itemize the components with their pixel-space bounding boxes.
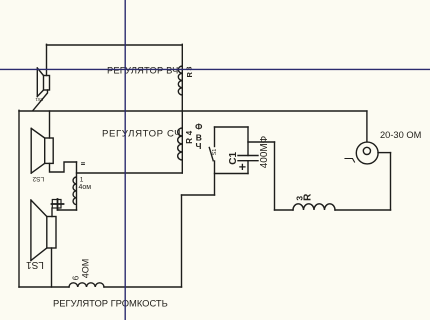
wire bottom vertical up [181,195,183,287]
wire bottom rail left [19,286,69,288]
earpiece outer circle [356,142,378,164]
speaker LS1 tweeter [37,68,49,97]
svg-text:4: 4 [185,130,194,135]
wire right edge up [390,153,392,210]
wire R4 bottom lead [181,160,183,173]
tiny equals mark [82,163,85,165]
wire right branch vertical [274,142,276,210]
wire box bottom edge [215,173,249,175]
svg-text:C1: C1 [228,151,239,164]
wire long middle [77,172,183,174]
wire LS2 top lead [49,111,51,138]
wire bottom rail right [104,286,182,288]
svg-text:Ч: Ч [196,141,202,151]
svg-text:LS1: LS1 [35,97,44,102]
wire bottom right [335,209,391,211]
svg-text:1: 1 [80,177,84,184]
wire LS2 bottom staircase [50,162,77,172]
wire cap tap [248,141,275,143]
plus terminal box [52,200,61,209]
svg-text:S1: S1 [212,149,218,156]
speaker LS3 [31,200,56,261]
wire jog horizontal [182,194,215,196]
svg-text:LS1: LS1 [26,259,44,270]
svg-text:РЕГУЛЯТОР СЧ: РЕГУЛЯТОР СЧ [102,129,181,140]
svg-text:R: R [302,193,313,201]
inductor L2 volume [69,283,104,287]
wire C1 top lead [247,127,249,156]
wire R3 to R4 [181,95,183,128]
wire left vertical [18,110,20,287]
svg-text:6: 6 [72,275,81,280]
earpiece tick mark [345,159,355,163]
wire R3 top lead [181,44,183,66]
inductor R4 [178,128,183,160]
crosshair horizontal [0,68,430,70]
C1 polarity plus [240,164,245,169]
wire LS3 top lead [51,208,53,217]
svg-text:РЕГУЛЯТОР ВЧ: РЕГУЛЯТОР ВЧ [107,66,179,76]
wire LS1 bottom lead [33,90,48,110]
wire box top edge [215,126,249,128]
wire to R5 coil [275,209,294,211]
svg-text:R: R [185,138,194,144]
inductor R3 [178,66,182,95]
wire LS3 bottom lead [51,248,53,287]
wire C1 bottom lead [247,161,249,174]
wire earpiece top lead [366,111,368,142]
svg-text:20-30 ОМ: 20-30 ОМ [380,130,421,140]
earpiece inner circle [363,147,370,154]
switch S1 blade [209,148,213,161]
wire box left edge [214,127,216,147]
capacitor C1 plates [238,156,258,161]
plus sign [52,199,64,210]
svg-text:400МФ: 400МФ [259,135,270,168]
wire top rail [47,44,183,46]
svg-text:4ОМ: 4ОМ [81,259,91,279]
svg-text:R: R [185,72,194,78]
inductor L1 4om [73,162,76,210]
inductor R5 [293,204,335,210]
wire earpiece right lead [378,152,391,154]
svg-text:4ом: 4ом [79,184,92,191]
svg-text:Ф: Ф [195,122,202,132]
wire mid rail [19,110,367,112]
wire LS1 top lead [46,44,48,75]
wire coil to plus box [58,209,77,211]
speaker LS2 [31,128,53,173]
svg-text:LS2: LS2 [32,175,44,182]
wire switch lower lead [214,161,216,195]
svg-text:РЕГУЛЯТОР ГРОМКОСТЬ: РЕГУЛЯТОР ГРОМКОСТЬ [53,298,168,309]
crosshair vertical [124,0,126,320]
